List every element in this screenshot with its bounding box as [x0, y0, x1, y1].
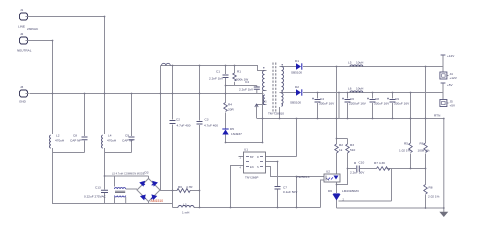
wire TNY EN to opto	[266, 167, 325, 177]
node labels and values	[17, 8, 458, 215]
wire inter-rail vertical B	[338, 93, 340, 119]
svg-text:2200uF 16V: 2200uF 16V	[349, 102, 367, 106]
wire NEUTRAL below L2 down and bottom rail to bridge area	[53, 148, 173, 204]
capacitor C13 X cap	[101, 190, 108, 192]
wire bias pin stub	[257, 105, 267, 119]
wire divider R5 branch	[410, 93, 412, 169]
svg-text:SB5100: SB5100	[291, 71, 302, 75]
svg-text:L3: L3	[183, 203, 187, 207]
svg-text:D2: D2	[295, 85, 299, 89]
svg-text:4.7R: 4.7R	[186, 185, 193, 189]
svg-text:100k 1%: 100k 1%	[418, 149, 430, 153]
wire D1 to +12V rail	[303, 66, 443, 68]
svg-text:TM-T28010: TM-T28010	[268, 112, 284, 116]
wire output cap branch C4	[317, 93, 319, 119]
svg-text:TNY266P: TNY266P	[245, 176, 258, 180]
svg-text:10uH: 10uH	[356, 87, 363, 91]
svg-text:230VAC: 230VAC	[27, 27, 39, 31]
bridge diode bottom-right	[152, 195, 156, 199]
wire C2 branch vertical	[172, 66, 174, 208]
wire Y-cap C8 branch	[53, 94, 85, 153]
capacitor C11 bypass	[275, 187, 281, 190]
svg-text:2.02 1%: 2.02 1%	[428, 195, 440, 199]
capacitor C3 bulk	[197, 122, 203, 125]
svg-text:BP: BP	[250, 155, 254, 159]
svg-text:EN: EN	[250, 165, 254, 169]
wire LINE to down bus	[28, 17, 105, 135]
power flag +5V	[441, 82, 446, 84]
wire NEUTRAL to bottom rail	[28, 41, 53, 135]
bias pin arrow	[255, 104, 258, 107]
svg-text:C7: C7	[283, 186, 287, 190]
wire TL431 cathode vertical	[336, 182, 338, 193]
wire ref line horizontal	[339, 200, 392, 202]
wire bridge plus vertical riser	[160, 66, 162, 191]
wire primary ground rail with L3	[173, 207, 321, 209]
wire secondary top winding to D1	[280, 66, 297, 68]
inductor L2	[50, 135, 51, 148]
wire R2 opto bias branch	[336, 119, 338, 175]
svg-text:1N4937: 1N4937	[231, 132, 242, 136]
svg-text:C8: C8	[73, 134, 77, 138]
capacitor C4 output	[312, 98, 321, 103]
wire R6 damping row	[160, 190, 200, 192]
capacitor C4p clamp to rail	[254, 87, 260, 89]
wire output cap branch C8b	[372, 93, 374, 119]
svg-text:GND: GND	[19, 100, 27, 104]
svg-text:R3: R3	[350, 143, 354, 147]
IC U1 TNY266	[244, 152, 266, 173]
resistor R2	[335, 144, 339, 153]
svg-text:0.1uF 50V: 0.1uF 50V	[283, 190, 298, 194]
svg-text:R8: R8	[429, 186, 433, 190]
wire right edge drop	[443, 119, 445, 213]
wire LINE bus below L4 to cap C13	[104, 148, 106, 204]
svg-text:D5: D5	[230, 127, 234, 131]
transformer core	[273, 63, 276, 114]
svg-text:D3: D3	[145, 171, 149, 175]
diode D5	[222, 129, 228, 135]
wire drain link D5 to transformer	[226, 142, 263, 144]
svg-text:330uF 16V: 330uF 16V	[374, 102, 390, 106]
svg-text:AM1510: AM1510	[151, 199, 164, 203]
capacitor C6 output	[342, 98, 351, 103]
wire primary bottom pin	[263, 90, 267, 92]
svg-text:CAP NP: CAP NP	[70, 139, 81, 143]
svg-text:LINE: LINE	[18, 25, 25, 29]
capacitor C1 clamp	[223, 75, 229, 78]
resistor R8	[424, 185, 428, 195]
diode D1	[296, 63, 302, 69]
svg-text:RTN: RTN	[434, 114, 440, 118]
inductor L5 on +12V rail	[350, 65, 363, 67]
connector J1	[20, 13, 30, 20]
svg-text:U2: U2	[326, 170, 330, 174]
svg-text:J1: J1	[20, 8, 24, 12]
svg-text:C9: C9	[395, 97, 399, 101]
wire bridge bottom stub	[148, 202, 150, 204]
wire compensation row	[348, 168, 426, 170]
wire TNY left pin stub	[239, 156, 244, 158]
svg-text:SB5100: SB5100	[290, 101, 301, 105]
svg-text:D1: D1	[295, 59, 299, 63]
resistor R6 damping	[177, 189, 190, 193]
bridge diode top-right	[153, 182, 157, 186]
wire TL431 anode to bottom rail	[336, 200, 338, 209]
transformer T1	[263, 63, 284, 114]
wire C3 branch vertical	[199, 66, 201, 208]
bridge diode bottom-left	[141, 195, 145, 199]
wire GND rail	[30, 93, 264, 95]
svg-text:+12V: +12V	[450, 76, 458, 80]
svg-text:510: 510	[350, 148, 355, 152]
transformer phase dots	[263, 67, 264, 68]
wire comp row hook to TL431 cathode	[337, 169, 348, 185]
resistor R1 clamp	[233, 73, 237, 81]
svg-text:C13: C13	[95, 186, 101, 190]
wire TNY bypass to C11	[266, 162, 278, 208]
svg-text:LM431BIM3: LM431BIM3	[342, 189, 359, 193]
wire primary top pin	[258, 70, 267, 72]
optocoupler U2	[324, 174, 340, 182]
inductor L6 on +5V rail	[350, 91, 363, 93]
svg-text:L2: L2	[56, 134, 60, 138]
wire secondary bottom pin	[279, 107, 281, 119]
svg-text:470uH: 470uH	[107, 139, 116, 143]
wire inter-rail vertical A	[336, 67, 338, 119]
svg-text:J3: J3	[20, 85, 24, 89]
wire clamp resistor R1 branch	[226, 66, 257, 94]
wire line to bridge top	[105, 176, 149, 179]
connector J2	[20, 37, 30, 44]
svg-text:C6: C6	[350, 97, 354, 101]
capacitor C9 (Y cap)	[129, 137, 135, 140]
svg-text:4,5: 4,5	[263, 100, 267, 104]
svg-text:L5 4.7mH COMMON MODE: L5 4.7mH COMMON MODE	[112, 172, 145, 176]
svg-text:+12V: +12V	[447, 54, 455, 58]
shunt regulator U4 TL431	[333, 194, 339, 200]
resistor R4	[224, 103, 228, 112]
common mode choke L5	[115, 188, 126, 197]
svg-text:4.7uF 400: 4.7uF 400	[204, 124, 218, 128]
svg-text:CAP NP: CAP NP	[122, 139, 133, 143]
svg-text:D6: D6	[328, 189, 332, 193]
wire output cap branch C6	[347, 93, 349, 119]
svg-text:R5: R5	[404, 142, 408, 146]
svg-text:R6: R6	[420, 142, 424, 146]
wire secondary tap to D2	[280, 92, 297, 94]
resistor R7 comp	[377, 167, 390, 171]
wire TNY left pin to ground rail	[231, 166, 244, 208]
bridge diode top-left	[140, 182, 144, 186]
wire RTN long rail	[257, 118, 444, 120]
svg-text:C9: C9	[125, 134, 129, 138]
wire choke pins	[115, 176, 138, 204]
svg-text:R1: R1	[237, 70, 241, 74]
svg-text:D: D	[257, 155, 259, 159]
svg-text:R6: R6	[178, 185, 182, 189]
svg-text:2.2nF 1kV: 2.2nF 1kV	[209, 77, 224, 81]
svg-text:L6: L6	[348, 87, 352, 91]
wire B+ top rail	[161, 66, 264, 71]
resistor R5 divider	[409, 143, 413, 153]
svg-text:1.02 1%: 1.02 1%	[399, 149, 411, 153]
wire clamp cap C1 branch	[225, 66, 227, 94]
transformer bias winding	[263, 95, 265, 105]
svg-text:C2: C2	[176, 118, 180, 122]
wire D2 to +5V rail	[303, 92, 443, 94]
wire R4 to D5 branch	[225, 94, 227, 143]
svg-text:1 mH: 1 mH	[182, 211, 189, 215]
capacitor C10 comp	[354, 162, 359, 172]
fuse F1 on B+ rail	[162, 63, 171, 65]
svg-text:10uH: 10uH	[356, 61, 363, 65]
capacitor C8b output	[367, 98, 376, 103]
capacitor C8 (Y cap)	[82, 137, 88, 140]
transformer secondary winding lower	[281, 93, 283, 106]
wire divider R6 branch from +12V rail	[425, 67, 427, 209]
svg-text:2.2uF 50V: 2.2uF 50V	[350, 171, 365, 175]
svg-text:470uH: 470uH	[55, 139, 64, 143]
svg-text:20R: 20R	[228, 108, 234, 112]
wire opto emitter to ground rail	[321, 180, 325, 208]
svg-text:C1: C1	[216, 70, 220, 74]
connector J5	[440, 100, 447, 107]
svg-text:1k: 1k	[339, 148, 343, 152]
capacitor C2 bulk	[170, 121, 176, 124]
svg-text:C10: C10	[359, 161, 365, 165]
svg-text:+5V: +5V	[447, 83, 454, 87]
wire Y-cap C9 branch	[105, 94, 132, 153]
wire R3 spur	[337, 139, 348, 169]
svg-text:4.7uF 400: 4.7uF 400	[177, 124, 191, 128]
svg-text:S: S	[257, 165, 259, 169]
ground symbol	[440, 212, 448, 217]
transformer secondary winding upper	[282, 67, 284, 93]
wire output cap branch C9b	[392, 93, 394, 119]
svg-text:L5: L5	[348, 61, 352, 65]
wire TNY drain riser	[266, 119, 297, 157]
svg-text:R7 4.3K: R7 4.3K	[374, 161, 386, 165]
wire +5V flag column	[442, 84, 444, 100]
svg-text:0.22uF 275VAC: 0.22uF 275VAC	[84, 195, 107, 199]
wire J4 pin stub	[447, 75, 449, 77]
power flag +12V	[441, 54, 446, 56]
wire primary bottom pin vertical	[262, 91, 264, 143]
svg-text:L4: L4	[108, 134, 112, 138]
wire ref line vertical	[391, 169, 393, 202]
connector J4	[440, 72, 447, 79]
svg-text:R2: R2	[339, 143, 343, 147]
inductor L4	[102, 135, 103, 148]
svg-text:C3: C3	[205, 118, 209, 122]
transformer primary winding	[263, 71, 265, 91]
wire J5 pin stub	[447, 102, 449, 104]
svg-text:330uF 16V: 330uF 16V	[319, 102, 335, 106]
resistor R3	[346, 144, 350, 153]
svg-text:C8: C8	[375, 97, 379, 101]
wire bridge top stub (none)	[148, 177, 150, 179]
wire bottom secondary ground rail	[337, 207, 444, 209]
diode D2	[296, 89, 302, 95]
wire TNY source drop	[296, 177, 298, 208]
inductor L3	[178, 206, 194, 208]
svg-text:PS2501-1: PS2501-1	[296, 175, 310, 179]
svg-text:2.2uF 1kV: 2.2uF 1kV	[239, 88, 254, 92]
svg-text:R4: R4	[228, 103, 232, 107]
svg-text:330uF 16V: 330uF 16V	[394, 102, 410, 106]
wire +12V flag column	[442, 56, 444, 73]
svg-text:C4: C4	[320, 97, 324, 101]
svg-text:NEUTRAL: NEUTRAL	[17, 49, 32, 53]
capacitor C9b output	[387, 98, 396, 103]
svg-text:J2: J2	[20, 32, 24, 36]
connector J3	[20, 90, 30, 97]
bridge rectifier D3	[137, 179, 160, 202]
svg-text:+5V: +5V	[450, 104, 457, 108]
svg-text:C4: C4	[245, 80, 249, 84]
svg-text:U1: U1	[244, 148, 248, 152]
resistor R6b divider	[424, 143, 428, 153]
